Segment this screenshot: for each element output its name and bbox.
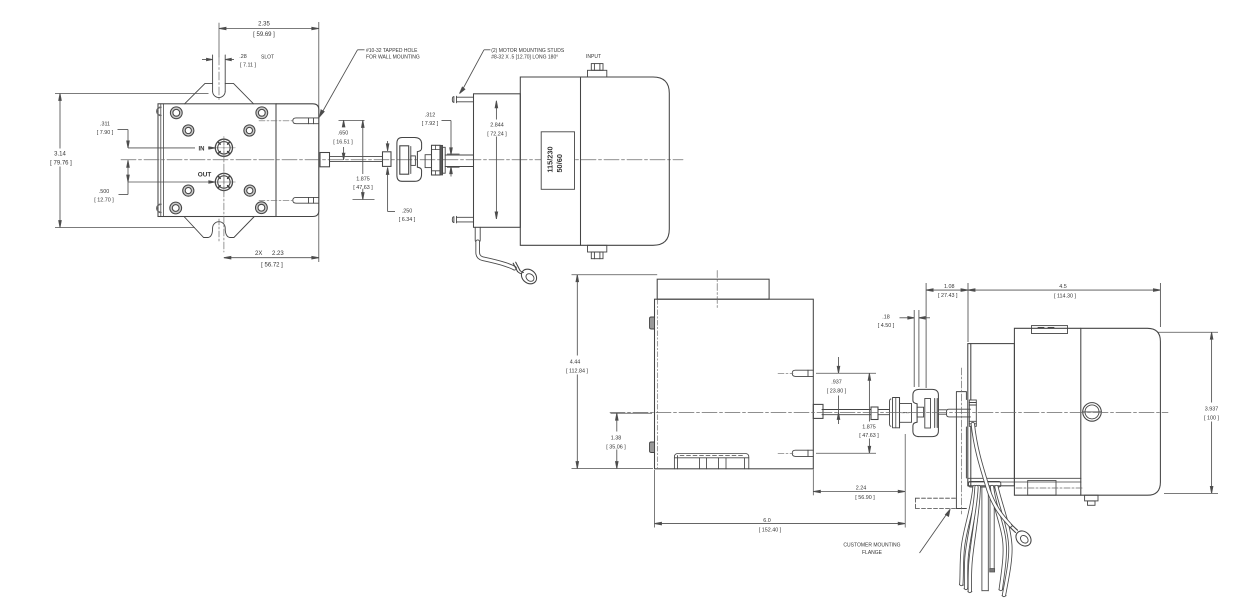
pump top tab xyxy=(657,279,769,299)
text 3.14 xyxy=(48,149,72,167)
svg-text:2X: 2X xyxy=(255,251,262,257)
coupling bowtie xyxy=(397,138,422,182)
motor front bell xyxy=(968,344,1015,486)
text 1.875 side xyxy=(350,174,376,191)
svg-text:6.0: 6.0 xyxy=(763,518,771,524)
svg-text:1.875: 1.875 xyxy=(356,177,370,183)
pump tapped hole top (bottom view) xyxy=(792,370,813,376)
OUT port xyxy=(213,171,236,194)
dimension 3.14 [79.76] left xyxy=(55,94,209,228)
wire strap xyxy=(982,487,995,591)
dimension 1.875 [47.63] side xyxy=(353,120,375,199)
svg-text:[ 7.92 ]: [ 7.92 ] xyxy=(422,121,439,127)
svg-text:FOR WALL MOUNTING: FOR WALL MOUNTING xyxy=(366,55,420,61)
OUT leader line xyxy=(128,181,215,183)
customer mounting flange plate xyxy=(956,392,966,509)
motor body divider xyxy=(1080,328,1082,495)
svg-text:4.5: 4.5 xyxy=(1059,284,1067,290)
dimension .18 [4.50] xyxy=(900,310,931,387)
IN leader line xyxy=(128,147,195,149)
motor body xyxy=(520,77,669,245)
text .937 xyxy=(824,376,849,395)
pump shaft xyxy=(822,410,871,415)
ring terminal wire xyxy=(973,424,1011,526)
svg-text:.312: .312 xyxy=(425,113,436,119)
corner bolt bottom-right xyxy=(256,202,268,214)
motor body divider xyxy=(580,77,582,245)
main horizontal centerline xyxy=(121,159,683,161)
ring wire crimp xyxy=(1010,525,1018,533)
svg-text:2.35: 2.35 xyxy=(258,22,270,28)
ground lug tab xyxy=(475,227,480,242)
IN port xyxy=(213,136,236,159)
svg-text:3.937: 3.937 xyxy=(1205,407,1219,413)
port vertical centerline xyxy=(223,138,225,252)
corner bolt top-left xyxy=(170,107,182,119)
wire end caps xyxy=(960,585,1006,596)
voltage label plate xyxy=(541,132,574,190)
svg-text:[ 152.40 ]: [ 152.40 ] xyxy=(759,528,782,534)
svg-text:CUSTOMER MOUNTING: CUSTOMER MOUNTING xyxy=(843,543,900,549)
svg-text:[ 7.90 ]: [ 7.90 ] xyxy=(97,130,114,136)
wire 3 xyxy=(992,487,1005,589)
svg-text:2.24: 2.24 xyxy=(856,486,867,492)
dimension .650 [16.51] xyxy=(339,120,365,159)
wire 1 xyxy=(961,487,974,584)
wall bracket top tab xyxy=(185,83,254,103)
wire 4 xyxy=(997,487,1011,595)
motor shaft end xyxy=(947,409,971,417)
motor stud bottom xyxy=(452,216,473,223)
svg-text:[ 4.50 ]: [ 4.50 ] xyxy=(878,323,895,329)
tapped hole centerlines bottom view xyxy=(778,373,793,453)
voltage label text xyxy=(545,146,564,172)
ground wire crimp xyxy=(513,262,520,271)
top mounting slot xyxy=(213,55,226,97)
shaft thin 2 xyxy=(878,410,890,415)
svg-text:IN: IN xyxy=(199,147,205,153)
pump tab centerline xyxy=(716,271,718,310)
svg-text:[ 7.11 ]: [ 7.11 ] xyxy=(240,63,257,69)
pump box xyxy=(655,299,814,469)
svg-text:(2) MOTOR MOUNTING STUDS: (2) MOTOR MOUNTING STUDS xyxy=(491,48,565,54)
motor shaft clamp xyxy=(969,400,976,426)
svg-text:[ 100 ]: [ 100 ] xyxy=(1204,416,1219,422)
text 1.50 xyxy=(603,432,630,451)
dimension .250 [6.34] xyxy=(386,141,395,212)
svg-text:OUT: OUT xyxy=(198,172,212,179)
wire 5 xyxy=(966,487,977,588)
dimension .28 [7.11] SLOT xyxy=(202,58,234,60)
svg-text:3.14: 3.14 xyxy=(54,152,66,158)
svg-text:1.38: 1.38 xyxy=(611,436,622,442)
coupling bowtie (bottom view) xyxy=(913,389,939,436)
shaft step hub xyxy=(383,152,392,167)
pump head front plate xyxy=(157,104,276,217)
clamp collar (bottom view) xyxy=(890,398,912,428)
inner bolt lower-right xyxy=(244,185,255,196)
svg-text:.650: .650 xyxy=(338,131,349,137)
dimension 2.844 [72.24] xyxy=(495,101,498,219)
pump shaft xyxy=(330,156,383,161)
dimension .937 [23.80] xyxy=(837,357,840,424)
dimension 4.5 [114.30] xyxy=(968,283,1160,327)
motor front plate xyxy=(474,94,521,228)
ring terminal (bottom) xyxy=(1013,528,1034,549)
dimension 1.08 [27.43] xyxy=(926,283,968,388)
motor stud top xyxy=(452,96,473,103)
tapped hole centerlines xyxy=(259,121,292,201)
svg-text:#8-32 X .5 [12.70] LONG 180°: #8-32 X .5 [12.70] LONG 180° xyxy=(491,55,558,61)
terminal stud top xyxy=(588,64,607,77)
dimension 6.0 [152.40] xyxy=(655,434,906,528)
wire 2 xyxy=(970,487,979,591)
inner bolt upper-right xyxy=(244,125,255,136)
svg-text:[ 35.06 ]: [ 35.06 ] xyxy=(606,445,626,451)
bottom tab centerline xyxy=(218,219,220,243)
svg-text:[ 27.43 ]: [ 27.43 ] xyxy=(938,293,958,299)
svg-text:.18: .18 xyxy=(882,315,890,321)
dimension 1.875 [47.63] bottom view xyxy=(816,373,876,453)
dimension 2.24 [56.90] xyxy=(813,470,905,496)
dimension 3.937 [100] xyxy=(1157,332,1218,493)
svg-text:[ 23.80 ]: [ 23.80 ] xyxy=(827,389,847,395)
svg-text:[ 47.63 ]: [ 47.63 ] xyxy=(353,185,373,191)
svg-text:.250: .250 xyxy=(402,209,413,215)
motor nameplate top xyxy=(1032,326,1068,334)
dimension .312 [7.92] xyxy=(442,121,460,177)
svg-text:2.844: 2.844 xyxy=(490,123,504,129)
svg-text:[ 6.34 ]: [ 6.34 ] xyxy=(399,217,416,223)
corner bolt top-right xyxy=(256,107,268,119)
pump tapped hole bottom (bottom view) xyxy=(792,450,813,456)
pump tapped hole bottom (side view) xyxy=(293,197,319,203)
wire exit cap xyxy=(969,482,1001,488)
svg-text:SLOT: SLOT xyxy=(261,55,274,61)
dimension .500 [12.70] xyxy=(119,160,130,194)
inner bolt lower-left xyxy=(183,185,194,196)
text 4.44 xyxy=(565,356,590,375)
ground wire xyxy=(478,242,515,268)
ground ring terminal xyxy=(518,266,540,287)
svg-text:.500: .500 xyxy=(99,189,110,195)
corner bolt bottom-left xyxy=(170,202,182,214)
leader #10-32 tapped hole xyxy=(320,50,365,117)
svg-text:[ 12.70 ]: [ 12.70 ] xyxy=(94,198,114,204)
svg-text:[ 72.24 ]: [ 72.24 ] xyxy=(487,132,507,138)
pump box hidden left edge xyxy=(657,299,659,469)
pump tapped hole top (side view) xyxy=(293,118,319,124)
svg-text:[ 79.76 ]: [ 79.76 ] xyxy=(50,161,72,167)
svg-text:FLANGE: FLANGE xyxy=(862,550,883,556)
leader motor mounting studs xyxy=(460,50,491,94)
slot centerline xyxy=(218,23,220,57)
wall bracket bottom tab xyxy=(184,217,254,238)
flange centerline xyxy=(960,368,962,514)
coupling clamp collar xyxy=(425,145,445,175)
bottom terminal strip xyxy=(674,454,748,469)
svg-text:1.875: 1.875 xyxy=(862,425,876,431)
left hook bottom xyxy=(650,442,655,453)
svg-text:#10-32 TAPPED HOLE: #10-32 TAPPED HOLE xyxy=(366,48,418,54)
flange foot (hidden) xyxy=(916,498,957,508)
leader customer mounting flange xyxy=(920,509,951,553)
motor bottom terminal lines xyxy=(968,478,1084,495)
dimension 2.35 [59.69] top xyxy=(219,22,319,262)
dimension 1.50 [38.10] xyxy=(611,413,653,468)
motor screw boss xyxy=(1083,403,1102,422)
text 3.937 xyxy=(1198,403,1226,422)
link shaft xyxy=(938,410,946,414)
dimension .311 [7.90] xyxy=(118,130,130,148)
dimension 2X 2.23 [56.72] bottom xyxy=(224,256,319,259)
svg-text:.28: .28 xyxy=(239,54,247,60)
text 2.844 xyxy=(483,120,510,138)
svg-text:.311: .311 xyxy=(100,122,110,128)
svg-text:INPUT: INPUT xyxy=(586,54,601,60)
terminal stud bottom xyxy=(588,245,607,258)
svg-text:2.23: 2.23 xyxy=(272,251,284,257)
svg-text:[ 47.63 ]: [ 47.63 ] xyxy=(859,433,879,439)
svg-text:1.08: 1.08 xyxy=(944,284,955,290)
bottom view centerline xyxy=(610,411,1168,413)
svg-text:115/230: 115/230 xyxy=(545,146,554,172)
motor body (bottom view) xyxy=(1014,328,1160,495)
pump shaft hub xyxy=(320,153,330,167)
pump shaft hub xyxy=(813,404,823,418)
svg-text:[ 56.72 ]: [ 56.72 ] xyxy=(261,263,283,269)
svg-text:[ 112.84 ]: [ 112.84 ] xyxy=(566,369,589,375)
dimension 4.44 [112.84] xyxy=(572,275,658,469)
svg-text:[ 56.90 ]: [ 56.90 ] xyxy=(855,495,875,501)
text 1.875 bottom xyxy=(855,422,883,440)
motor bottom tab xyxy=(1085,495,1098,505)
svg-text:.937: .937 xyxy=(831,380,842,386)
svg-text:[ 114.30 ]: [ 114.30 ] xyxy=(1054,294,1077,300)
left hook top xyxy=(650,317,655,329)
svg-text:50/60: 50/60 xyxy=(555,154,564,173)
wall bracket right extension xyxy=(276,104,319,217)
svg-text:4.44: 4.44 xyxy=(570,360,581,366)
svg-text:[ 16.51 ]: [ 16.51 ] xyxy=(333,140,353,146)
shaft step xyxy=(871,407,878,420)
inner bolt upper-left xyxy=(183,125,194,136)
text IN xyxy=(195,144,208,153)
svg-text:[ 59.69 ]: [ 59.69 ] xyxy=(253,32,275,38)
motor shaft xyxy=(445,155,473,167)
